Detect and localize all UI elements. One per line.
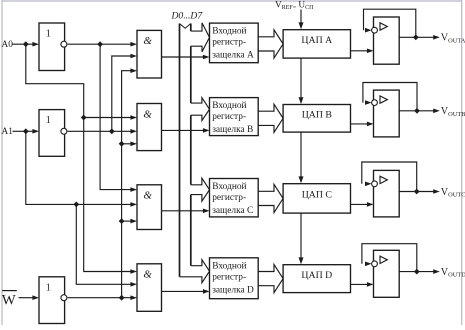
svg-text:Входной: Входной bbox=[212, 181, 246, 192]
node NOT-A0 branch bbox=[97, 41, 103, 47]
bus tap register B bbox=[191, 98, 210, 121]
output VOUTA bbox=[441, 33, 465, 45]
bus register D to DAC D bbox=[258, 265, 283, 293]
op-amp buffer C bbox=[374, 170, 400, 217]
svg-text:регистр-: регистр- bbox=[212, 193, 246, 203]
svg-text:A0: A0 bbox=[2, 40, 14, 50]
svg-text:&: & bbox=[143, 269, 152, 281]
bus register А to DAC А bbox=[258, 30, 283, 58]
input A0 bbox=[2, 40, 14, 50]
node NOT-A1 branch bbox=[109, 128, 115, 134]
wire A1 input bbox=[13, 129, 40, 134]
svg-text:D0...D7: D0...D7 bbox=[171, 11, 204, 22]
inverter U3 output bubble bbox=[61, 295, 67, 301]
bus ribbon verticals bbox=[180, 24, 191, 277]
svg-text:&: & bbox=[143, 35, 152, 47]
wire A0 to matrix bbox=[26, 44, 137, 274]
svg-text:&: & bbox=[143, 108, 152, 120]
svg-text:защелка А: защелка А bbox=[212, 51, 254, 61]
svg-text:регистр-: регистр- bbox=[212, 112, 246, 122]
wire W to gate D3 bbox=[122, 219, 137, 224]
svg-text:регистр-: регистр- bbox=[212, 272, 246, 282]
node op-amp C feedback junction bbox=[414, 189, 420, 195]
svg-text:ЦАП С: ЦАП С bbox=[302, 190, 332, 201]
wire NOT-A1 from U2 bbox=[68, 129, 137, 134]
svg-text:1: 1 bbox=[46, 115, 51, 126]
op-amp buffer A bbox=[374, 17, 400, 64]
wire op-amp C output bbox=[399, 189, 440, 194]
wire NOT-A1 to gate D1 bbox=[112, 54, 137, 132]
and-gate D3 bbox=[137, 185, 162, 230]
bus tap register C bbox=[191, 178, 210, 201]
op-amp D inverting input bubble bbox=[372, 261, 378, 267]
svg-text:защелка D: защелка D bbox=[212, 285, 254, 295]
DAC В bbox=[283, 105, 350, 133]
wire DAC D output bbox=[351, 282, 374, 287]
wire W to gate D2 bbox=[122, 142, 137, 147]
feedback loop A bbox=[364, 9, 416, 37]
register latch С bbox=[210, 179, 259, 217]
feedback loop C bbox=[362, 162, 417, 192]
svg-text:Входной: Входной bbox=[212, 260, 246, 271]
svg-text:1: 1 bbox=[46, 282, 51, 293]
svg-text:ЦАП А: ЦАП А bbox=[301, 35, 332, 46]
wire /W input bbox=[19, 295, 40, 300]
wire DAC С output bbox=[351, 202, 374, 207]
wire latch-enable А bbox=[162, 55, 210, 60]
and-gate D1 bbox=[137, 30, 162, 78]
wire DAC В output bbox=[351, 122, 374, 127]
wire latch-enable D bbox=[162, 289, 210, 294]
label VREF bbox=[275, 1, 314, 12]
input A1 bbox=[2, 127, 14, 137]
wire VREF chain C-D bbox=[299, 213, 304, 264]
wire A0 to gate D2 bbox=[84, 115, 137, 120]
node W tap row C bbox=[119, 218, 125, 224]
wire VREF to DAC A bbox=[299, 10, 304, 30]
node A0 branch bbox=[23, 41, 29, 47]
bus tap register A bbox=[191, 23, 210, 52]
wire NOT-A0 to gate D3 bbox=[100, 44, 137, 192]
node op-amp D feedback junction bbox=[414, 269, 420, 275]
inverter U1 bbox=[39, 23, 65, 71]
inverter U2 output bubble bbox=[61, 128, 67, 134]
svg-text:ЦАП D: ЦАП D bbox=[301, 270, 332, 281]
bus label D0...D7 bbox=[171, 11, 204, 22]
output VOUTC bbox=[441, 187, 465, 199]
svg-text:A1: A1 bbox=[2, 127, 14, 137]
wire DAC А output bbox=[351, 49, 374, 54]
svg-text:Входной: Входной bbox=[212, 100, 246, 111]
and-gate D4 bbox=[137, 264, 162, 312]
DAC А bbox=[283, 30, 350, 58]
op-amp buffer D bbox=[374, 250, 400, 297]
svg-text:защелка В: защелка В bbox=[212, 125, 253, 135]
node A1 column tap bbox=[73, 202, 79, 208]
svg-text:защелка С: защелка С bbox=[212, 206, 253, 216]
output VOUTD bbox=[441, 267, 465, 279]
node op-amp A feedback junction bbox=[413, 34, 419, 40]
register latch В bbox=[210, 98, 259, 136]
svg-text:W: W bbox=[2, 292, 16, 308]
wire op-amp B output bbox=[399, 109, 440, 114]
node W tap row B bbox=[119, 141, 125, 147]
op-amp A inverting input bubble bbox=[372, 27, 378, 33]
svg-text:ЦАП В: ЦАП В bbox=[302, 110, 333, 121]
input /W bbox=[2, 291, 17, 309]
wire latch-enable С bbox=[162, 209, 210, 214]
svg-text:&: & bbox=[143, 190, 152, 202]
inverter U3 bbox=[39, 277, 65, 324]
output VOUTB bbox=[441, 106, 465, 118]
bus register В to DAC В bbox=[258, 104, 283, 132]
wire W column bbox=[122, 68, 137, 297]
bus register С to DAC С bbox=[258, 184, 283, 212]
node A1 branch bbox=[23, 128, 29, 134]
and-gate D2 bbox=[137, 104, 162, 151]
wire VREF chain B-C bbox=[299, 132, 304, 183]
wire A1 to gate D3 bbox=[26, 131, 137, 206]
svg-text:1: 1 bbox=[46, 29, 51, 40]
register latch D bbox=[210, 258, 259, 299]
svg-text:Входной: Входной bbox=[212, 26, 246, 37]
node A0 column tap bbox=[81, 115, 87, 121]
wire W from U3 bbox=[68, 295, 137, 300]
wire latch-enable В bbox=[162, 128, 210, 133]
feedback loop B bbox=[363, 83, 417, 111]
wire A0 input bbox=[13, 42, 40, 47]
inverter U2 bbox=[39, 110, 65, 157]
inverter U1 output bubble bbox=[61, 41, 67, 47]
node op-amp B feedback junction bbox=[414, 108, 420, 114]
op-amp C inverting input bubble bbox=[372, 181, 378, 187]
bus tap register D bbox=[180, 260, 210, 283]
wire op-amp D output bbox=[399, 269, 440, 274]
svg-text:регистр-: регистр- bbox=[212, 38, 246, 48]
wire NOT-A0 from U1 bbox=[68, 42, 137, 47]
op-amp buffer B bbox=[374, 90, 400, 137]
register latch А bbox=[210, 23, 259, 63]
op-amp B inverting input bubble bbox=[372, 100, 378, 106]
wire VREF chain A-B bbox=[299, 58, 304, 104]
wire A1 to gate D4 bbox=[76, 204, 137, 286]
wire op-amp A output bbox=[399, 35, 440, 40]
feedback loop D bbox=[362, 244, 417, 272]
DAC D bbox=[283, 265, 350, 293]
node W branch bbox=[119, 295, 125, 301]
DAC С bbox=[283, 184, 350, 213]
